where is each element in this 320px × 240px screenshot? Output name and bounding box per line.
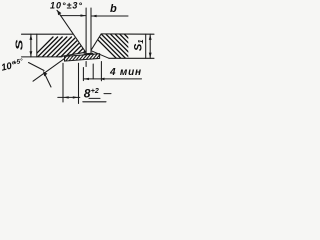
- backing strip outline: [65, 54, 100, 61]
- weld root shadow: [84, 53, 92, 56]
- left plate hatching: [28, 37, 113, 62]
- bottom-left arrow: [44, 73, 51, 88]
- root gap right edge line: [90, 8, 92, 54]
- svg-text:S: S: [14, 39, 25, 50]
- dimension 4 min line: [83, 78, 141, 80]
- dimension S1 arrows: [149, 34, 152, 58]
- dimension S line: [30, 34, 32, 57]
- extension line x78.5: [78, 63, 80, 103]
- left plate break line: [36, 34, 38, 57]
- svg-text:10°±3°: 10°±3°: [50, 0, 82, 10]
- extension line x63 (strip left end): [62, 63, 64, 102]
- right plate bottom edge with extension: [109, 57, 154, 59]
- right plate top edge with extension: [101, 33, 154, 35]
- dimension 8+2 line: [58, 96, 80, 98]
- dimension S1 line: [149, 34, 151, 58]
- bevel leader arrowhead: [57, 10, 61, 15]
- label 8+2: [84, 86, 99, 100]
- svg-text:b: b: [110, 3, 117, 15]
- right plate break line: [145, 34, 147, 58]
- left plate bottom rise to root: [59, 52, 86, 57]
- shelf line under 8+2: [83, 101, 106, 103]
- root gap left edge line: [85, 8, 87, 54]
- label 10 deg +5 rotated: [0, 57, 25, 74]
- dimension b left arrow line: [60, 15, 86, 17]
- extension line x101.4 (strip right end): [100, 62, 102, 81]
- dash mark right of 8+2: [104, 93, 111, 95]
- right plate hatching: [88, 30, 169, 60]
- extension line x93.2: [92, 64, 94, 79]
- shelf line under superscript: [89, 97, 100, 99]
- left plate bottom edge with extension: [22, 56, 63, 58]
- right plate bottom taper: [91, 51, 109, 59]
- leader stub from 10+5 text: [29, 63, 45, 71]
- right bevel line: [91, 34, 101, 50]
- root gap left edge stub below strip: [85, 62, 87, 67]
- svg-text:4 мин: 4 мин: [109, 67, 141, 78]
- dimension b right arrow line: [91, 15, 128, 17]
- svg-text:+2: +2: [91, 88, 99, 95]
- svg-text:1: 1: [136, 39, 145, 43]
- left plate top edge with extension: [22, 33, 73, 35]
- svg-text:+5°: +5°: [12, 57, 24, 67]
- bottom-left leader line: [33, 59, 65, 82]
- left bevel line (10 deg): [57, 10, 86, 52]
- dimension S arrows: [30, 34, 33, 56]
- backing strip hatching: [60, 52, 112, 64]
- extension line x83.4: [82, 68, 84, 81]
- label S1: [133, 39, 146, 51]
